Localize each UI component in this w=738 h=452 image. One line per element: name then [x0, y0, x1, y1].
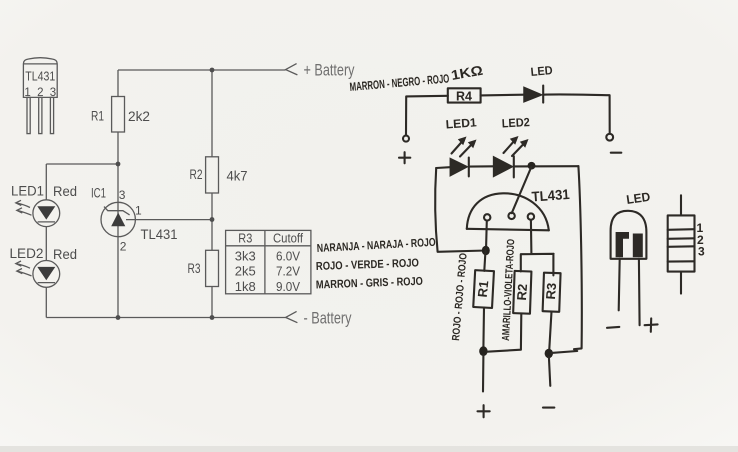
LED D1 (LED1 Red)	[11, 182, 77, 226]
svg-text:LED1: LED1	[445, 115, 477, 131]
wire right edge of loop	[552, 166, 582, 353]
svg-text:Red: Red	[53, 246, 77, 262]
svg-text:LED2: LED2	[10, 245, 44, 261]
op-amp U2 : TL431 dome (hand)	[467, 186, 571, 230]
node + Battery connector	[286, 62, 355, 80]
wire left edge of loop	[435, 168, 486, 252]
wire R4 to LED	[481, 94, 524, 97]
node - Battery connector	[286, 309, 352, 327]
wire LED to - terminal	[544, 94, 610, 133]
svg-text:3: 3	[698, 245, 705, 259]
LED2 emission arrows (hand)	[504, 136, 529, 156]
node junction bottom right	[545, 349, 553, 358]
resistor R2 (hand)	[513, 271, 531, 314]
svg-text:6.0V: 6.0V	[276, 249, 300, 264]
wire inner top rail with series LEDs	[436, 166, 450, 169]
wire right pin down and T to R2 R3	[521, 220, 554, 276]
node junction top rail / R2	[210, 68, 215, 73]
svg-text:Red: Red	[53, 183, 77, 199]
wire IC1 pin1 to R2/R3 node	[126, 219, 212, 221]
node junction R1 bottom	[116, 162, 121, 167]
svg-text:TL431: TL431	[25, 69, 55, 84]
svg-text:LED1: LED1	[11, 182, 44, 198]
wire bottom rail	[46, 317, 285, 319]
node junction left (pin1/R1)	[482, 246, 490, 255]
node junction bottom rail R3	[210, 315, 215, 320]
wire R2 bottom elbow to junction	[487, 314, 521, 352]
resistor R2	[190, 157, 248, 193]
wire IC1 vertical	[117, 164, 119, 318]
svg-text:3: 3	[119, 188, 126, 202]
wire R1 leads	[117, 70, 119, 164]
op-amp U1 : IC1 TL431 shunt regulator symbol	[91, 186, 178, 254]
svg-text:R3: R3	[188, 261, 201, 276]
svg-text:4k7: 4k7	[227, 168, 248, 183]
node junction pin1 / R2 / R3	[210, 217, 215, 222]
svg-text:IC1: IC1	[91, 186, 106, 201]
LED D2 (LED2 Red)	[10, 245, 78, 287]
node battery + terminal (hand)	[399, 136, 410, 164]
resistor R4	[448, 88, 481, 103]
LED package drawing far right	[607, 190, 658, 332]
svg-text:TL431: TL431	[141, 227, 178, 242]
TO-92 package TL431 top-left	[23, 58, 57, 134]
resistor R1 (hand)	[473, 270, 494, 308]
svg-text:R3: R3	[238, 231, 252, 246]
svg-text:R4: R4	[456, 90, 472, 104]
svg-text:Cutoff: Cutoff	[273, 231, 303, 246]
svg-text:+ Battery: + Battery	[304, 62, 356, 80]
svg-text:1: 1	[135, 203, 142, 217]
svg-text:R2: R2	[190, 167, 203, 182]
svg-text:2: 2	[120, 240, 127, 254]
node battery - terminal (hand)	[606, 134, 621, 153]
diode LED1 series	[450, 158, 469, 177]
svg-text:LED: LED	[530, 63, 553, 79]
svg-text:R3: R3	[543, 282, 559, 300]
wire junction down to plus	[482, 355, 484, 392]
wire R1 bottom to junction	[482, 308, 485, 348]
node plus terminal bottom (hand)	[478, 405, 490, 417]
resistor R3	[188, 250, 219, 286]
svg-text:LED2: LED2	[501, 115, 530, 130]
resistor R3 (hand)	[543, 273, 561, 312]
svg-text:R2: R2	[514, 283, 530, 301]
svg-text:1k8: 1k8	[235, 279, 256, 294]
svg-text:- Battery: - Battery	[304, 309, 353, 327]
node junction bottom rail IC1	[116, 315, 121, 320]
svg-text:9.0V: 9.0V	[276, 279, 300, 294]
resistor R1	[91, 97, 150, 133]
wire + terminal up to R4	[406, 96, 448, 135]
node junction after series LEDs	[528, 162, 536, 170]
svg-text:TL431: TL431	[531, 186, 570, 205]
node junction bottom left	[479, 346, 487, 356]
svg-text:2k5: 2k5	[235, 264, 256, 279]
wire pin1 down to junction	[485, 221, 488, 251]
wire between series LEDs	[469, 165, 494, 167]
diode LED (top, hand)	[524, 63, 553, 103]
resistor color-band drawing far right	[668, 195, 705, 293]
svg-text:7.2V: 7.2V	[276, 264, 300, 279]
diode LED2 series	[494, 156, 514, 177]
svg-text:R1: R1	[475, 280, 492, 298]
wire top rail	[118, 69, 286, 71]
wire node to LED chain	[46, 163, 118, 165]
svg-text:2k2: 2k2	[128, 109, 150, 124]
wire LED chain vertical	[45, 164, 47, 318]
wire R3 bottom to junction	[549, 312, 551, 351]
svg-text:R1: R1	[91, 108, 104, 123]
wire R2 leads	[211, 70, 213, 220]
wire diagonal junction to TL431 middle pin	[512, 167, 532, 213]
node minus terminal bottom (hand)	[543, 407, 554, 409]
wire junction to R1	[484, 251, 485, 271]
LED1 emission arrows (hand)	[452, 137, 477, 157]
value table R3/Cutoff	[226, 230, 311, 294]
svg-text:3k3: 3k3	[235, 249, 256, 264]
wire LED2 to right corner	[514, 165, 579, 167]
wire R3 leads	[211, 220, 213, 318]
wire junction down to minus	[549, 357, 550, 386]
